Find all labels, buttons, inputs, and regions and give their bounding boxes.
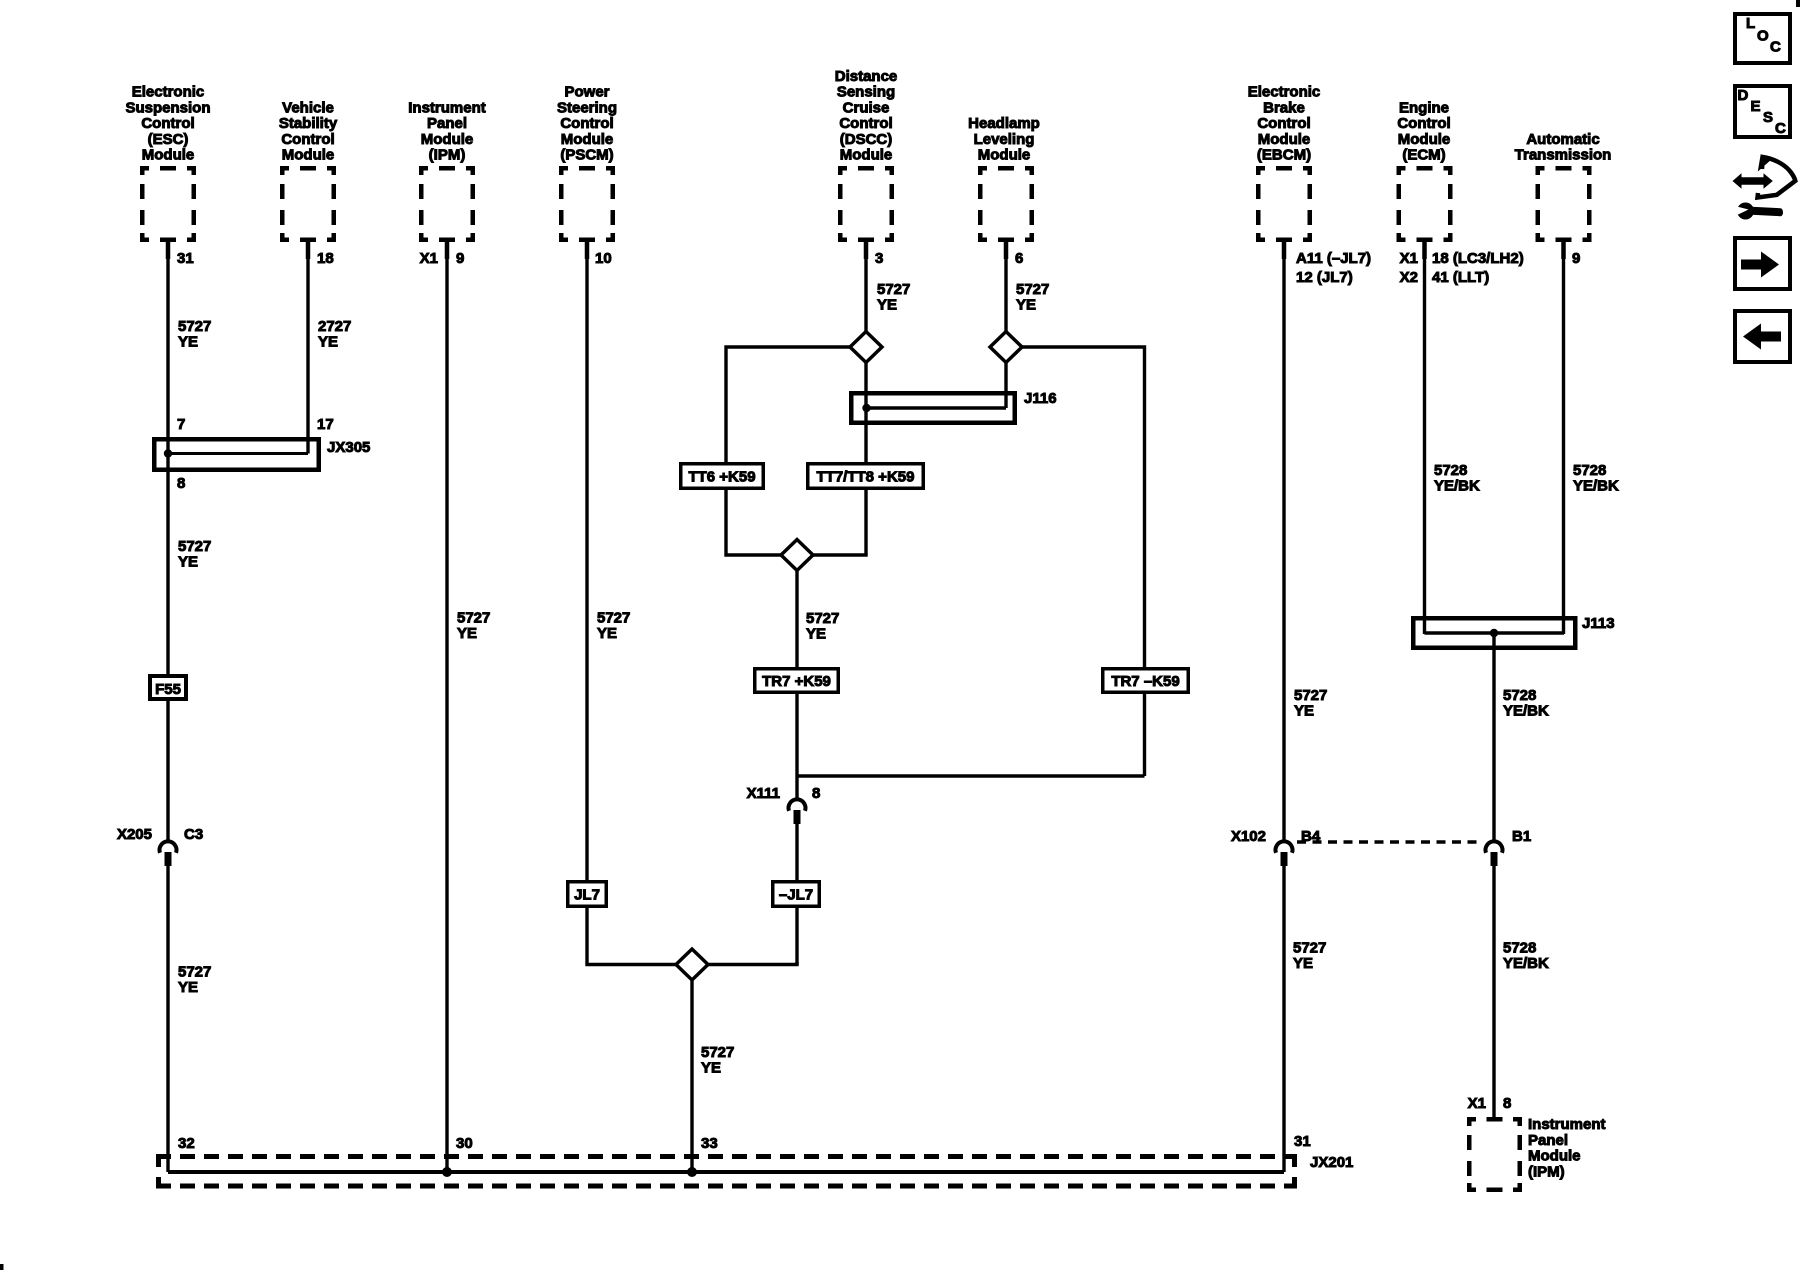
svg-text:X1: X1 <box>1400 250 1418 267</box>
svg-text:5727: 5727 <box>457 610 490 627</box>
svg-text:YE/BK: YE/BK <box>1573 478 1619 495</box>
svg-text:Instrument: Instrument <box>408 99 486 116</box>
svg-text:(ECM): (ECM) <box>1402 147 1445 164</box>
svg-text:A11 (–JL7): A11 (–JL7) <box>1296 250 1371 267</box>
svg-text:18: 18 <box>317 250 334 267</box>
svg-text:5728: 5728 <box>1434 462 1467 479</box>
svg-text:5728: 5728 <box>1503 687 1536 704</box>
svg-text:(ESC): (ESC) <box>148 131 189 148</box>
svg-text:YE: YE <box>318 334 338 351</box>
svg-text:Module: Module <box>142 147 195 164</box>
svg-text:10: 10 <box>595 250 612 267</box>
svg-text:5727: 5727 <box>1294 687 1327 704</box>
svg-text:YE/BK: YE/BK <box>1503 703 1549 720</box>
svg-text:JL7: JL7 <box>574 887 600 904</box>
svg-text:YE/BK: YE/BK <box>1434 478 1480 495</box>
svg-text:Module: Module <box>1258 131 1311 148</box>
svg-text:X1: X1 <box>420 250 438 267</box>
svg-text:Transmission: Transmission <box>1515 147 1612 164</box>
svg-text:Module: Module <box>840 147 893 164</box>
svg-text:Module: Module <box>978 147 1031 164</box>
svg-text:Distance: Distance <box>835 68 898 85</box>
svg-text:J116: J116 <box>1024 390 1057 407</box>
svg-text:TT6 +K59: TT6 +K59 <box>688 469 755 486</box>
svg-text:X205: X205 <box>117 826 152 843</box>
svg-text:Power: Power <box>564 84 609 101</box>
svg-text:YE: YE <box>178 334 198 351</box>
svg-text:Steering: Steering <box>557 99 617 116</box>
svg-text:TR7 –K59: TR7 –K59 <box>1111 673 1179 690</box>
svg-text:Module: Module <box>1528 1148 1581 1165</box>
svg-text:Module: Module <box>561 131 614 148</box>
svg-text:Engine: Engine <box>1399 99 1449 116</box>
svg-text:(PSCM): (PSCM) <box>560 147 613 164</box>
svg-text:30: 30 <box>456 1135 473 1152</box>
svg-text:YE/BK: YE/BK <box>1503 955 1549 972</box>
svg-text:Control: Control <box>1397 115 1450 132</box>
svg-text:B1: B1 <box>1512 828 1531 845</box>
svg-text:Cruise: Cruise <box>843 99 890 116</box>
svg-text:C: C <box>1770 39 1781 56</box>
svg-text:8: 8 <box>812 785 820 802</box>
svg-text:(IPM): (IPM) <box>429 147 466 164</box>
svg-text:9: 9 <box>456 250 464 267</box>
svg-text:Vehicle: Vehicle <box>282 99 334 116</box>
svg-text:31: 31 <box>1294 1133 1311 1150</box>
svg-text:18 (LC3/LH2): 18 (LC3/LH2) <box>1432 250 1524 267</box>
svg-text:Control: Control <box>141 115 194 132</box>
svg-text:YE: YE <box>178 554 198 571</box>
svg-text:5727: 5727 <box>597 610 630 627</box>
svg-text:7: 7 <box>177 416 185 433</box>
svg-text:Stability: Stability <box>279 115 338 132</box>
svg-text:X111: X111 <box>747 785 780 802</box>
svg-text:X1: X1 <box>1468 1095 1486 1112</box>
svg-text:Module: Module <box>421 131 474 148</box>
svg-text:YE: YE <box>806 626 826 643</box>
svg-text:JX201: JX201 <box>1310 1154 1353 1171</box>
svg-text:D: D <box>1738 87 1749 104</box>
svg-text:X102: X102 <box>1231 828 1266 845</box>
svg-text:Module: Module <box>1398 131 1451 148</box>
svg-text:5727: 5727 <box>178 538 211 555</box>
svg-text:YE: YE <box>1293 955 1313 972</box>
svg-text:2727: 2727 <box>318 318 351 335</box>
svg-text:Panel: Panel <box>1528 1132 1568 1149</box>
svg-text:YE: YE <box>877 297 897 314</box>
svg-text:C: C <box>1775 120 1786 137</box>
svg-text:5727: 5727 <box>178 318 211 335</box>
svg-text:5727: 5727 <box>701 1044 734 1061</box>
svg-text:TR7 +K59: TR7 +K59 <box>762 673 831 690</box>
svg-text:C3: C3 <box>184 826 203 843</box>
svg-text:Instrument: Instrument <box>1528 1116 1606 1133</box>
svg-text:Control: Control <box>1257 115 1310 132</box>
svg-text:O: O <box>1757 28 1769 45</box>
svg-text:YE: YE <box>1294 703 1314 720</box>
svg-text:5727: 5727 <box>1016 281 1049 298</box>
svg-text:17: 17 <box>317 416 334 433</box>
svg-text:Control: Control <box>839 115 892 132</box>
svg-text:Automatic: Automatic <box>1526 131 1599 148</box>
svg-text:Control: Control <box>560 115 613 132</box>
svg-text:YE: YE <box>597 625 617 642</box>
svg-text:12 (JL7): 12 (JL7) <box>1296 269 1353 286</box>
svg-text:Headlamp: Headlamp <box>968 115 1040 132</box>
svg-text:Brake: Brake <box>1263 99 1305 116</box>
svg-text:S: S <box>1763 109 1773 126</box>
svg-text:F55: F55 <box>155 681 181 698</box>
svg-text:TT7/TT8 +K59: TT7/TT8 +K59 <box>817 469 915 486</box>
svg-text:5728: 5728 <box>1573 462 1606 479</box>
svg-text:5727: 5727 <box>178 964 211 981</box>
svg-text:5727: 5727 <box>806 610 839 627</box>
svg-text:(IPM): (IPM) <box>1528 1163 1565 1180</box>
svg-text:Leveling: Leveling <box>974 131 1035 148</box>
svg-text:Module: Module <box>282 147 335 164</box>
svg-text:(EBCM): (EBCM) <box>1257 147 1311 164</box>
svg-text:8: 8 <box>177 475 185 492</box>
svg-text:Panel: Panel <box>427 115 467 132</box>
svg-text:J113: J113 <box>1582 615 1615 632</box>
svg-text:32: 32 <box>178 1135 195 1152</box>
svg-text:31: 31 <box>177 250 194 267</box>
svg-text:E: E <box>1751 98 1761 115</box>
svg-text:Electronic: Electronic <box>1248 84 1321 101</box>
svg-text:6: 6 <box>1015 250 1023 267</box>
svg-text:9: 9 <box>1572 250 1580 267</box>
svg-text:Suspension: Suspension <box>125 99 210 116</box>
svg-text:Electronic: Electronic <box>132 84 205 101</box>
svg-text:5728: 5728 <box>1503 940 1536 957</box>
svg-text:YE: YE <box>1016 297 1036 314</box>
svg-text:X2: X2 <box>1400 269 1418 286</box>
svg-text:YE: YE <box>178 979 198 996</box>
svg-text:B4: B4 <box>1301 828 1321 845</box>
svg-text:41 (LLT): 41 (LLT) <box>1432 269 1489 286</box>
svg-text:33: 33 <box>701 1135 718 1152</box>
svg-text:3: 3 <box>875 250 883 267</box>
svg-text:5727: 5727 <box>877 281 910 298</box>
svg-text:8: 8 <box>1503 1095 1511 1112</box>
svg-text:(DSCC): (DSCC) <box>840 131 893 148</box>
svg-text:JX305: JX305 <box>327 439 370 456</box>
svg-text:YE: YE <box>701 1060 721 1077</box>
svg-text:YE: YE <box>457 625 477 642</box>
svg-text:–JL7: –JL7 <box>779 887 813 904</box>
svg-text:5727: 5727 <box>1293 940 1326 957</box>
svg-text:L: L <box>1746 15 1755 32</box>
svg-text:Sensing: Sensing <box>837 84 895 101</box>
svg-text:Control: Control <box>281 131 334 148</box>
